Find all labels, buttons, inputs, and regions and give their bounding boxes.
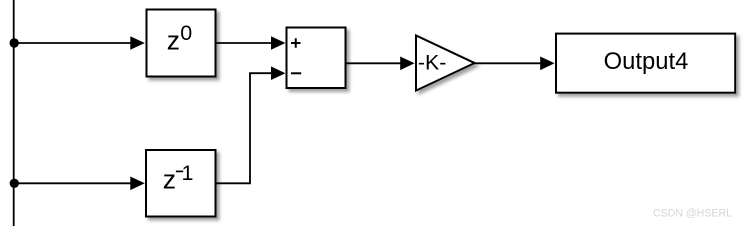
svg-text:-K-: -K- <box>418 51 446 75</box>
svg-text:CSDN @HSERL: CSDN @HSERL <box>653 208 732 220</box>
svg-text:Output4: Output4 <box>604 48 689 75</box>
svg-text:z: z <box>167 25 180 55</box>
svg-text:z: z <box>163 164 176 194</box>
svg-text:0: 0 <box>180 21 192 45</box>
svg-text:1: 1 <box>182 161 194 185</box>
